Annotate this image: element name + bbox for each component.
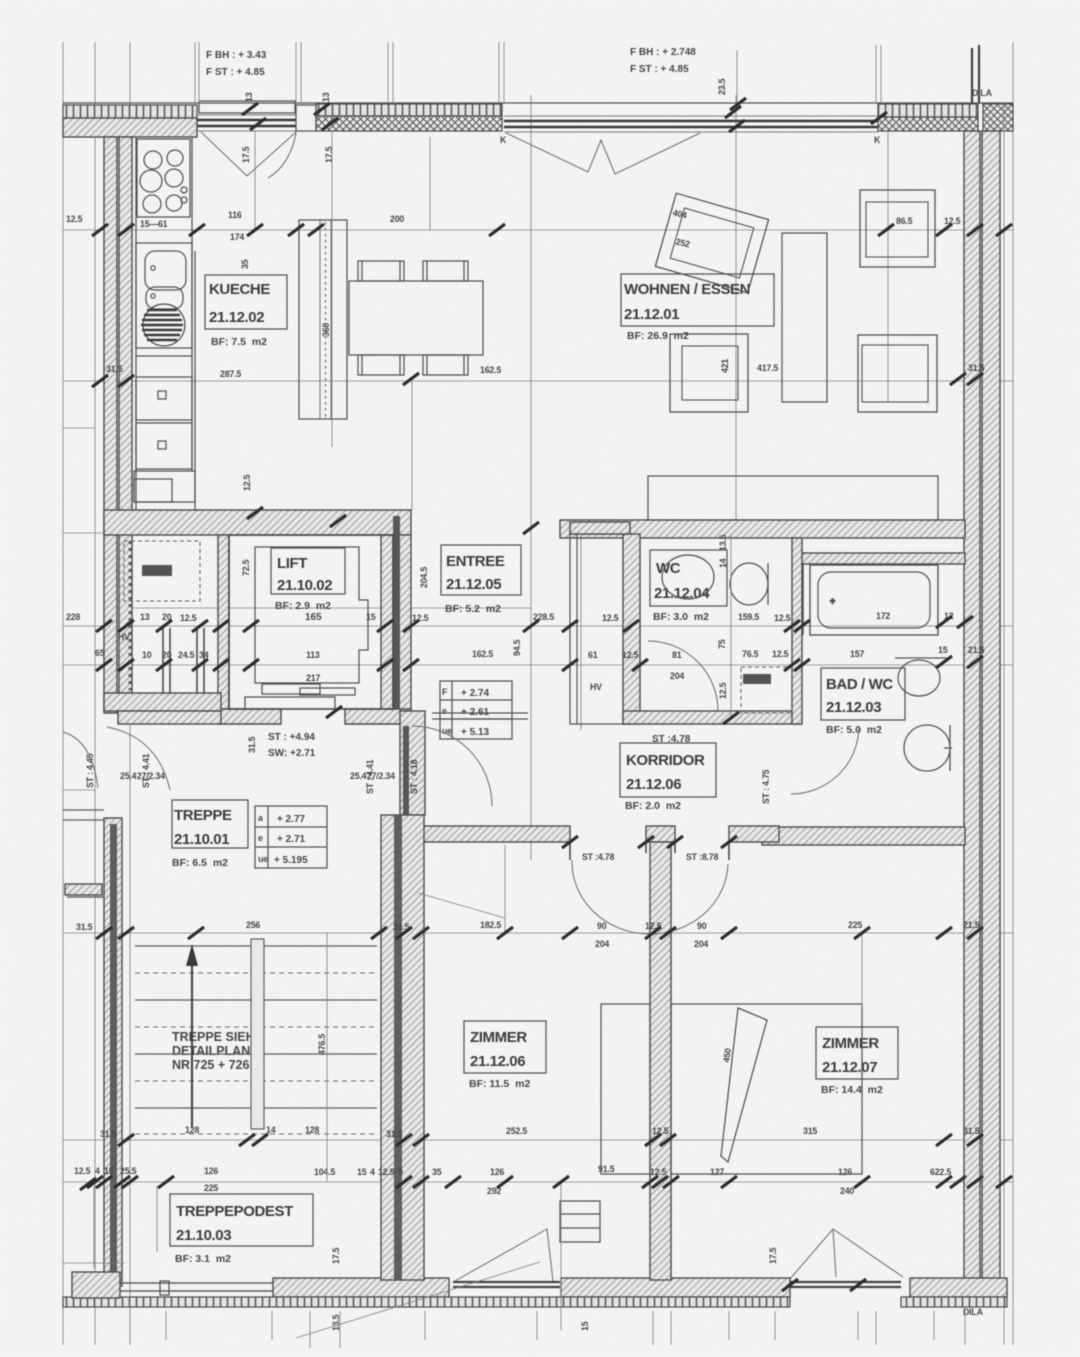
room label KORRIDOR bbox=[620, 743, 716, 812]
left wall window (balcony door) bbox=[63, 810, 104, 820]
lift ST/SW note bbox=[268, 732, 316, 759]
zimmer dividing wall bbox=[650, 842, 671, 1280]
chairs bbox=[358, 261, 468, 375]
armchair mid right bbox=[858, 335, 937, 412]
bath inner top wall (above tub) bbox=[798, 553, 965, 564]
bottom left wall corner block bbox=[72, 1272, 120, 1298]
extension line x888 bbox=[887, 131, 889, 402]
duct shaft left of WC bbox=[570, 534, 631, 724]
lift shaft right wall bbox=[381, 535, 411, 711]
left exterior wall (lower) bbox=[104, 818, 122, 1286]
lift inner cavity outline bbox=[229, 535, 393, 709]
duct top hatch bbox=[570, 522, 630, 534]
dim row y933 texts bbox=[76, 920, 980, 949]
room label KUECHE bbox=[205, 275, 287, 348]
top wall diamond band (center) bbox=[316, 104, 502, 116]
bath bottom wall bbox=[762, 827, 965, 845]
lift car bbox=[255, 547, 368, 683]
kitchen bottom wall / lift top wall bbox=[104, 510, 411, 535]
small pier in treppepodest opening bbox=[160, 1281, 169, 1295]
WC bottom wall bbox=[623, 711, 800, 724]
treppe/zimmer dividing wall (vertical) bbox=[400, 711, 425, 815]
pier between kitchen window and door bbox=[296, 105, 316, 131]
corridor bottom wall segments bbox=[401, 826, 570, 842]
door arc treppe balcony bbox=[107, 727, 170, 790]
top exterior wall: outer line bbox=[63, 102, 1013, 104]
room label ENTREE bbox=[441, 545, 521, 615]
bottom exterior wall hatch band bbox=[273, 1278, 1007, 1297]
bath vanity dashed bbox=[741, 667, 792, 713]
stairs up arrow bbox=[186, 944, 198, 1127]
bottom exterior wall tick band bbox=[63, 1297, 790, 1307]
kitchen counter edge bbox=[192, 137, 195, 510]
kitchen island strip bbox=[299, 220, 347, 419]
lift shaft bottom wall bbox=[218, 709, 281, 724]
bottom diagonal (lower floor swing) bbox=[296, 1262, 540, 1338]
entry door threshold bbox=[432, 713, 528, 719]
kitchen window glazing bbox=[197, 115, 296, 131]
bottom windows glazing bbox=[120, 1283, 273, 1291]
label F BH +2.748 / F ST +4.85 bbox=[630, 47, 696, 75]
top wall right outer strip after DILA bbox=[983, 104, 1013, 131]
room label ZIMMER 21.12.07 bbox=[816, 1027, 898, 1096]
bath toilet bbox=[904, 725, 952, 771]
Z06 wardrobe rect bbox=[601, 1004, 650, 1174]
dark striped circle (hob) bbox=[141, 304, 185, 346]
stairs treads bbox=[135, 946, 377, 1108]
DILA joint marks top right bbox=[971, 48, 973, 103]
armchair top right bbox=[860, 190, 935, 267]
top wall hatch band left (kitchen) bbox=[63, 118, 197, 137]
Z07 tilted door sliver bbox=[721, 1008, 767, 1162]
living bottom wall over bath bbox=[560, 520, 965, 538]
entree elevation table bbox=[440, 681, 512, 739]
Z07 wardrobe rect bbox=[671, 1004, 862, 1174]
insulation dotted strip bbox=[129, 541, 132, 690]
stairs dashed mid-lines bbox=[135, 973, 377, 1134]
bathtub bbox=[810, 565, 938, 635]
lift shaft left wall bbox=[218, 535, 229, 711]
dim row y381 texts bbox=[106, 359, 985, 379]
label F BH +3.43 / F ST +4.85 bbox=[206, 50, 267, 78]
left balcony divider stub bbox=[65, 884, 102, 895]
kitchen french-door swing bbox=[201, 132, 296, 176]
cabinet boxes bbox=[134, 377, 195, 502]
bath washbasin bbox=[895, 658, 947, 696]
lift sliding door bbox=[262, 684, 320, 694]
room label TREPPEPODEST bbox=[170, 1194, 313, 1265]
radiator Z06 bbox=[560, 1201, 600, 1242]
rotated small dims bbox=[85, 78, 778, 1331]
right exterior wall outer band bbox=[982, 131, 1000, 1291]
door arcs zimmer (half circle) bbox=[572, 860, 728, 934]
niche step wall bbox=[118, 711, 221, 724]
WM dark label bbox=[142, 565, 172, 576]
room label TREPPE bbox=[172, 800, 248, 869]
door arc WC bbox=[648, 641, 718, 711]
dim row y665 texts bbox=[95, 645, 985, 683]
room label WOHNEN/ESSEN bbox=[621, 274, 774, 342]
left exterior wall (kitchen) bbox=[104, 137, 117, 517]
living tall cabinet bbox=[782, 233, 827, 402]
room label BAD/WC bbox=[821, 668, 905, 736]
stove 4 plates bbox=[137, 139, 190, 217]
armchair mid left bbox=[670, 334, 748, 412]
small wall posts left of lift bbox=[163, 628, 204, 694]
dim row y626 texts bbox=[66, 611, 954, 660]
room label WC bbox=[650, 550, 727, 623]
dim row y1182 texts bbox=[74, 1164, 951, 1196]
treppe elevation table bbox=[255, 806, 327, 868]
treppe detail note bbox=[172, 1030, 263, 1072]
living window french-door swing zigzag bbox=[506, 133, 700, 174]
dim row y230 texts bbox=[66, 210, 961, 242]
stairs stringer rails (white strip) bbox=[251, 939, 264, 1129]
door jamb marks corridor bbox=[570, 843, 729, 860]
kitchen counter inner lines bbox=[136, 355, 192, 357]
dining table bbox=[349, 281, 483, 355]
left exterior wall (mid) bbox=[104, 517, 117, 713]
room label LIFT bbox=[271, 548, 345, 623]
door arc bath bbox=[791, 726, 859, 794]
WC toilet bbox=[662, 555, 714, 599]
sofa bbox=[648, 476, 938, 520]
WC right wall bbox=[792, 538, 802, 724]
kitchen sink two basins bbox=[136, 243, 192, 348]
right exterior wall inner band bbox=[964, 131, 980, 1291]
dim row y1140 texts bbox=[100, 1126, 980, 1139]
kitchen window sill bbox=[199, 101, 295, 113]
living room window glazing bbox=[504, 116, 878, 132]
dimension ticks bbox=[80, 98, 1012, 1291]
niche bottom wall (left, under WM area) bbox=[104, 693, 221, 711]
door arc entree-treppe bbox=[412, 726, 492, 806]
WM niche dashed box bbox=[124, 541, 200, 601]
top wall tick band left (kitchen) bbox=[63, 105, 197, 118]
bottom window swing Z06 bbox=[455, 1229, 553, 1281]
WC basin bbox=[730, 563, 768, 605]
living tilted square bbox=[655, 193, 768, 293]
room label ZIMMER 21.12.06 bbox=[464, 1021, 546, 1090]
bottom window swing Z07 bbox=[790, 1229, 903, 1279]
top wall tick band right bbox=[878, 104, 978, 117]
